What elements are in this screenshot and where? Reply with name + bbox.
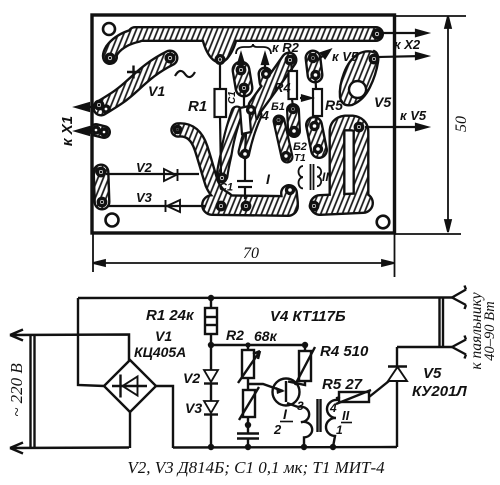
svg-text:~ 220 В: ~ 220 В [7,363,26,417]
svg-text:R5: R5 [325,97,343,113]
svg-text:R2: R2 [226,327,244,343]
svg-text:V3: V3 [136,190,153,205]
svg-text:V5: V5 [374,94,391,110]
svg-text:R1: R1 [188,98,207,115]
svg-text:II: II [322,170,329,184]
svg-text:R1 24к: R1 24к [146,307,195,324]
svg-text:R4 510: R4 510 [320,343,369,360]
svg-text:1: 1 [336,423,343,437]
svg-text:V2: V2 [136,160,153,175]
svg-text:70: 70 [243,245,259,262]
svg-text:к V5: к V5 [400,108,427,123]
svg-text:V2, V3 Д814Б; С1 0,1 мк; Т1 МИ: V2, V3 Д814Б; С1 0,1 мк; Т1 МИТ-4 [127,458,385,477]
svg-text:50: 50 [453,116,470,132]
svg-text:КЦ405А: КЦ405А [134,344,186,360]
svg-text:С1: С1 [219,182,233,194]
svg-text:II: II [342,408,350,423]
svg-text:R5 27: R5 27 [322,376,363,393]
svg-text:V3: V3 [185,400,202,416]
svg-text:к V5: к V5 [332,49,359,64]
svg-text:к Х1: к Х1 [59,116,76,146]
svg-text:Б2: Б2 [293,141,307,153]
svg-text:к R2: к R2 [272,40,300,55]
svg-text:4: 4 [329,401,337,415]
svg-text:V4: V4 [253,108,270,123]
svg-text:Т1: Т1 [294,153,306,164]
svg-text:2: 2 [273,422,282,437]
svg-text:КУ201Л: КУ201Л [412,383,467,400]
svg-text:V5: V5 [423,365,442,382]
svg-text:40–90 Вт: 40–90 Вт [482,301,498,360]
svg-text:V1: V1 [155,328,172,344]
svg-text:3: 3 [297,399,304,413]
svg-text:R4: R4 [274,80,291,95]
svg-text:V2: V2 [183,370,200,386]
svg-text:V1: V1 [148,83,165,99]
svg-text:к Х2: к Х2 [394,37,421,52]
svg-text:68к: 68к [254,328,278,344]
svg-text:Б1: Б1 [271,101,285,113]
svg-text:С1: С1 [227,91,238,104]
svg-text:V4 КТ117Б: V4 КТ117Б [270,308,346,325]
